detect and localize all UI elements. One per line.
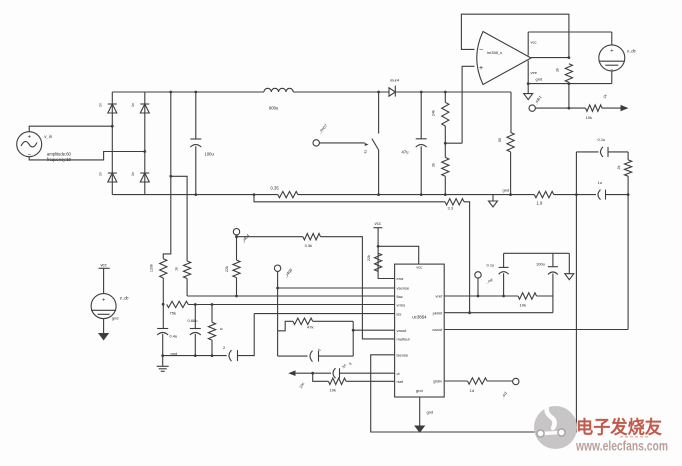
svg-text:1d: 1d	[470, 388, 474, 393]
wire	[477, 278, 479, 296]
label 24k	[432, 110, 436, 116]
label lm358	[487, 50, 502, 55]
resistor R 2k div	[442, 157, 449, 176]
junction	[111, 125, 146, 153]
wire	[420, 92, 422, 139]
label 1d	[470, 388, 474, 393]
wire	[606, 194, 629, 196]
pin rset	[397, 379, 405, 384]
wire	[313, 373, 329, 381]
svg-text:10k: 10k	[586, 115, 592, 120]
ground	[99, 334, 108, 340]
wire	[144, 92, 146, 195]
svg-text:gtdrv: gtdrv	[433, 379, 442, 384]
op-amp U1 body uc3854	[395, 264, 445, 397]
capacitor C1 100u	[190, 139, 201, 147]
arrow ct	[288, 370, 295, 376]
junction	[502, 295, 505, 298]
capacitor C 0.1u vref	[499, 267, 509, 274]
wire output	[531, 57, 569, 59]
svg-text:+: +	[610, 49, 613, 55]
svg-text:pklmt: pklmt	[433, 311, 443, 316]
wire	[340, 372, 395, 374]
label _j408	[282, 267, 293, 279]
svg-text:vrms: vrms	[397, 302, 406, 307]
wire	[171, 176, 187, 261]
wire pklmt line	[444, 312, 553, 314]
wire	[277, 271, 279, 330]
terminal m07	[313, 140, 319, 146]
wire	[103, 268, 105, 293]
wire	[238, 314, 255, 356]
label 47u	[402, 150, 410, 155]
resistor R 10k vref	[518, 293, 537, 299]
label D3	[99, 172, 103, 176]
pin ct	[397, 371, 401, 376]
label 2k	[556, 68, 560, 72]
wire top bus	[112, 91, 264, 93]
svg-text:1u: 1u	[598, 180, 602, 185]
label v_dc	[627, 49, 637, 54]
wire	[552, 253, 554, 296]
watermark text cn	[576, 417, 662, 438]
junction	[527, 82, 571, 85]
label 0.35	[271, 186, 280, 191]
inductor L1	[264, 88, 293, 92]
op-amp U2 lm358	[477, 32, 531, 85]
svg-text:www.elecfans.com: www.elecfans.com	[575, 439, 668, 454]
capacitor C comp1	[601, 147, 609, 157]
svg-text:uc3854: uc3854	[412, 314, 427, 319]
label gnd	[536, 76, 543, 81]
label uc3854	[412, 314, 427, 319]
wire	[444, 380, 467, 382]
wire - input	[461, 14, 569, 57]
junction	[468, 311, 471, 314]
svg-text:vaout: vaout	[397, 328, 408, 333]
junction	[169, 91, 172, 178]
pin ena	[397, 276, 404, 281]
wire vsense line	[278, 287, 395, 289]
wire return bus	[112, 194, 277, 196]
label gnd pin	[416, 388, 423, 393]
wire	[537, 295, 553, 297]
wire	[444, 176, 446, 194]
pin isense	[397, 353, 409, 358]
wire	[535, 107, 585, 109]
label v_in	[44, 134, 52, 139]
svg-text:+: +	[102, 298, 105, 304]
svg-text:47k: 47k	[307, 325, 313, 330]
label D2	[131, 103, 135, 107]
svg-text:6: 6	[220, 328, 224, 330]
resistor R 6k	[208, 322, 215, 340]
wire	[29, 126, 112, 132]
label 0.4u	[170, 334, 178, 339]
label 6k	[220, 328, 224, 330]
wire	[464, 202, 470, 313]
svg-text:22k: 22k	[225, 266, 229, 272]
pin pklmt	[433, 311, 443, 316]
resistor R 22k ena	[375, 253, 382, 271]
wire	[627, 152, 629, 196]
svg-text:22k: 22k	[367, 255, 371, 261]
label 2k	[617, 165, 621, 169]
wire	[195, 92, 197, 139]
wire	[254, 195, 445, 202]
wire ss line	[254, 313, 394, 315]
resistor R 2k comp	[625, 160, 632, 176]
label 0.1u	[598, 137, 606, 142]
svg-text:2k: 2k	[617, 165, 621, 169]
capacitor C comp2	[598, 190, 606, 200]
junction	[568, 56, 571, 59]
capacitor C 47u	[416, 139, 427, 147]
terminal drv	[513, 378, 519, 384]
resistor R 2k load	[565, 64, 572, 83]
wire	[103, 319, 105, 334]
wire	[575, 152, 577, 432]
wire vcc	[527, 32, 529, 56]
svg-text:50: 50	[498, 138, 502, 142]
svg-text:120k: 120k	[150, 264, 154, 272]
svg-text:ena: ena	[397, 276, 404, 281]
svg-text:2k: 2k	[556, 68, 560, 72]
label 22k	[225, 266, 229, 272]
junction	[377, 245, 380, 248]
dc source v_dc2	[91, 294, 116, 319]
label vcc pin	[416, 265, 422, 270]
wire gnd rail	[504, 252, 570, 254]
wire	[278, 331, 308, 356]
resistor R 24k	[442, 102, 449, 126]
wire	[420, 146, 422, 194]
label 3.3	[448, 206, 454, 211]
capacitor C 0.68u	[190, 329, 201, 336]
wire	[236, 235, 238, 260]
svg-text:3.3k: 3.3k	[305, 243, 313, 248]
svg-text:0.1u: 0.1u	[487, 262, 495, 267]
label 50k	[498, 138, 502, 142]
ac voltage source V1	[17, 132, 42, 159]
wire	[111, 92, 113, 195]
wire	[298, 194, 534, 196]
wire	[378, 246, 419, 264]
junction	[444, 91, 447, 196]
svg-text:47u: 47u	[402, 150, 410, 155]
wire	[236, 278, 238, 296]
wire isense	[371, 355, 577, 432]
wire	[321, 237, 395, 339]
pin caout	[432, 327, 443, 332]
resistor R 1.9	[534, 191, 554, 197]
vcc bar	[373, 227, 382, 229]
pin multout	[397, 337, 411, 342]
svg-text:电子发烧友: 电子发烧友	[576, 417, 662, 438]
wire	[313, 320, 354, 322]
svg-text:v_dc: v_dc	[120, 296, 130, 301]
wire	[237, 236, 303, 238]
svg-text:rset: rset	[397, 379, 405, 384]
wire	[319, 142, 364, 144]
wire	[352, 321, 354, 356]
svg-text:v_dc: v_dc	[627, 49, 637, 54]
label vcc	[531, 40, 537, 45]
terminal ref	[475, 272, 481, 278]
svg-text:10k: 10k	[520, 303, 526, 308]
resistor R 10k out	[586, 105, 602, 111]
wire	[211, 305, 213, 356]
svg-text:vcc: vcc	[416, 265, 422, 270]
svg-text:2k: 2k	[432, 163, 436, 167]
svg-text:1.9: 1.9	[537, 201, 543, 206]
svg-text:v_in: v_in	[44, 134, 52, 139]
pin vsense	[397, 286, 410, 291]
label 1k	[175, 267, 179, 271]
label amplitude	[47, 151, 72, 156]
wire	[444, 92, 446, 102]
wire	[554, 194, 577, 196]
ground	[524, 94, 533, 100]
svg-text:1n: 1n	[99, 103, 103, 107]
resistor R 47k	[293, 318, 313, 324]
terminal j404	[233, 229, 239, 235]
svg-text:24k: 24k	[432, 110, 436, 116]
svg-text:100u: 100u	[536, 262, 545, 267]
diode D4	[140, 173, 149, 182]
svg-text:gnd: gnd	[536, 76, 543, 81]
svg-text:fiac: fiac	[397, 294, 403, 299]
label _m07	[316, 122, 328, 135]
capacitor C series 2u	[229, 350, 238, 361]
wire ct line	[294, 372, 331, 374]
label 100u	[536, 262, 545, 267]
label gnd	[427, 409, 434, 414]
junction	[161, 303, 164, 357]
pin ss	[397, 311, 402, 316]
svg-text:vcc: vcc	[531, 40, 537, 45]
svg-text:75k: 75k	[170, 311, 176, 316]
wire	[29, 152, 145, 160]
svg-text:10k: 10k	[330, 388, 336, 393]
label 47k	[307, 325, 313, 330]
svg-text:vref: vref	[436, 294, 444, 299]
svg-text:+: +	[27, 134, 31, 140]
svg-text:100u: 100u	[205, 152, 215, 157]
ground	[565, 274, 574, 280]
label 2u	[223, 345, 226, 350]
svg-text:1n: 1n	[131, 172, 135, 176]
resistor R gtdrv	[468, 378, 488, 384]
resistor R 22k	[233, 260, 240, 278]
wire	[378, 228, 395, 279]
junction	[477, 295, 480, 298]
wire iac line	[187, 295, 395, 297]
junction	[194, 91, 197, 196]
pin iac	[397, 294, 403, 299]
label mur460	[390, 78, 400, 83]
label _j404	[239, 232, 250, 244]
label 10n	[299, 382, 306, 389]
label 1u	[317, 347, 323, 353]
label _drv	[499, 390, 508, 400]
label _ref	[484, 277, 494, 285]
diode D1	[108, 104, 117, 113]
label _mb1	[532, 95, 542, 107]
ground	[415, 426, 424, 432]
wire	[162, 278, 164, 329]
resistor R 3.3k	[303, 234, 321, 240]
pin vref	[436, 294, 444, 299]
diode D3	[108, 173, 117, 182]
wire	[195, 146, 197, 194]
label T1	[602, 94, 608, 100]
wire	[163, 92, 171, 259]
svg-text:0.35: 0.35	[271, 186, 280, 191]
label vcc symbol	[375, 221, 381, 226]
junction	[377, 91, 380, 94]
wire rset line	[346, 380, 395, 382]
label D1	[99, 103, 103, 107]
wire gnd rail	[528, 83, 612, 85]
wire	[568, 82, 570, 108]
resistor R 50k	[507, 132, 514, 152]
diode D2	[140, 104, 149, 113]
svg-text:mur4: mur4	[390, 78, 400, 83]
wire	[419, 397, 421, 426]
wire	[487, 380, 512, 382]
label gnd	[112, 316, 119, 321]
svg-text:−: −	[479, 47, 483, 54]
capacitor C fb	[310, 351, 319, 362]
wire vref line	[444, 295, 518, 297]
wire vaout line	[353, 329, 394, 331]
ground	[157, 366, 169, 371]
svg-text:1n: 1n	[99, 172, 103, 176]
wire	[492, 195, 494, 201]
wire	[510, 152, 512, 195]
label frequency	[47, 157, 72, 162]
label 2k	[432, 163, 436, 167]
wire	[444, 126, 446, 157]
wire	[186, 279, 188, 297]
wire	[378, 92, 380, 134]
wire vrms line	[188, 304, 394, 306]
pin vaout	[397, 328, 408, 333]
label 10k	[520, 303, 526, 308]
svg-text:iss: iss	[397, 311, 402, 316]
wire	[503, 253, 505, 296]
junction	[509, 193, 512, 196]
label 0.68u	[188, 318, 198, 323]
dc source v_dc	[599, 45, 625, 73]
svg-text:0.68u: 0.68u	[188, 318, 198, 323]
pin vrms	[397, 302, 406, 307]
label 100u	[205, 152, 215, 157]
svg-text:0.4u: 0.4u	[170, 334, 178, 339]
label 75k	[170, 311, 176, 316]
terminal j408	[274, 265, 280, 271]
svg-text:isense: isense	[397, 353, 409, 358]
svg-text:gnd: gnd	[416, 388, 423, 393]
label 1.9	[537, 201, 543, 206]
wire	[576, 151, 598, 153]
svg-text:lm358_s: lm358_s	[487, 50, 502, 55]
resistor R 120k	[160, 259, 167, 278]
wire	[611, 71, 613, 84]
svg-text:vee: vee	[531, 70, 538, 75]
wire vrms branch	[163, 355, 227, 357]
svg-text:vcc: vcc	[100, 263, 106, 268]
label 10k	[330, 388, 336, 393]
svg-text:gnd: gnd	[112, 316, 119, 321]
svg-text:0.1u: 0.1u	[598, 137, 606, 142]
junction	[253, 193, 256, 196]
capacitor C 100u vref	[548, 267, 558, 275]
svg-text:3.3: 3.3	[448, 206, 454, 211]
wire	[293, 91, 389, 93]
label vee	[531, 70, 538, 75]
wire	[162, 334, 164, 366]
svg-text:vsense: vsense	[397, 286, 410, 291]
wire	[627, 195, 629, 329]
junction	[568, 107, 571, 110]
label 120k	[150, 264, 154, 272]
junction	[276, 287, 279, 290]
svg-text:gnd: gnd	[503, 188, 510, 193]
wire + input	[462, 66, 474, 143]
label s1	[363, 149, 368, 154]
label 1n ct	[341, 363, 348, 370]
label v_dc	[120, 296, 130, 301]
diode D5	[389, 86, 395, 97]
resistor R shunt 0.35	[278, 191, 298, 197]
svg-text:1k: 1k	[175, 267, 179, 271]
label gnd	[171, 351, 178, 356]
pin gtdrv	[433, 379, 442, 384]
junction	[311, 372, 314, 375]
svg-text:caout: caout	[432, 327, 443, 332]
svg-text:vcc: vcc	[375, 221, 381, 226]
label 800u	[269, 106, 279, 111]
junction	[352, 329, 355, 332]
capacitor C 0.4u	[157, 329, 168, 336]
wire	[576, 194, 596, 196]
resistor R rset 10k	[328, 378, 346, 384]
label 4	[348, 361, 354, 367]
ground	[489, 201, 498, 207]
junction	[420, 91, 423, 196]
svg-text:1n: 1n	[131, 103, 135, 107]
svg-text:800u: 800u	[269, 106, 279, 111]
label 3.3k	[305, 243, 313, 248]
junction	[211, 303, 214, 357]
wire	[510, 92, 512, 132]
svg-text:multout: multout	[397, 337, 411, 342]
wire	[611, 32, 613, 45]
label D4	[131, 172, 135, 176]
arrow out	[621, 105, 629, 111]
resistor R 1k divider	[184, 261, 191, 279]
wire	[552, 296, 554, 313]
junction	[235, 235, 238, 238]
wire	[278, 321, 293, 331]
wire caout line	[444, 329, 628, 331]
wire vee	[527, 61, 529, 94]
label 10k	[586, 115, 592, 120]
terminal out	[529, 105, 535, 111]
wire	[602, 107, 622, 109]
